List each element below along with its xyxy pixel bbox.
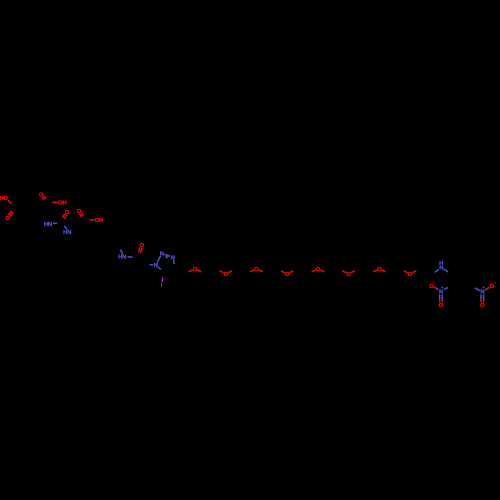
bond NH-C1(ring) half <box>444 269 448 272</box>
nitro2 N+ label <box>480 289 484 295</box>
svg-text:O: O <box>480 303 485 309</box>
nitro1 plus sign <box>441 286 443 288</box>
svg-text:N: N <box>439 289 443 295</box>
nitro1 O(-) label <box>429 284 434 290</box>
svg-text:O: O <box>3 196 8 202</box>
triazole N2 label <box>160 252 164 258</box>
bond HN-C(urea) half <box>53 222 57 225</box>
svg-text:O: O <box>429 284 434 290</box>
nitro1 N=O double bond <box>440 294 443 302</box>
nitro2 N=O double bond <box>481 294 484 302</box>
svg-text:O: O <box>377 267 382 273</box>
PEG ether O2 with half-bonds <box>219 271 232 278</box>
amide O label <box>140 243 145 249</box>
nitro2 minus sign <box>495 282 497 284</box>
bond ring-N+ (nitro2) half <box>475 288 480 291</box>
nitro2 plus sign <box>483 286 485 288</box>
triazole N3 label <box>171 255 175 261</box>
svg-text:O: O <box>65 210 70 216</box>
svg-text:N: N <box>439 265 443 271</box>
nitro2 O label (double bonded) <box>480 303 485 309</box>
bond C5-I half <box>161 277 164 282</box>
bond N1-C5 half <box>158 267 161 270</box>
bond C(urea)-NH half <box>64 226 67 229</box>
alpha carboxyl C=O double bond half <box>42 196 46 200</box>
triazole N1 label <box>154 263 158 269</box>
nitro2 N-O(-) bond <box>485 287 490 290</box>
nitro1 N+ label <box>439 289 443 295</box>
triazole N2=N3 double bond <box>165 254 171 257</box>
svg-text:N: N <box>67 230 71 236</box>
DNP N-H label <box>439 261 443 271</box>
PEG ether O5 with half-bonds <box>312 267 325 273</box>
glutamate carbonyl double bond C=O half <box>8 211 13 216</box>
lysine carbonyl O label <box>77 209 82 215</box>
svg-text:O: O <box>193 267 198 273</box>
urea right NH label <box>63 230 71 236</box>
svg-text:O: O <box>489 284 494 290</box>
nitro1 O label (double bonded) <box>439 303 444 309</box>
alpha carboxyl C-OH bond half <box>52 201 57 203</box>
nitro1 minus sign <box>433 281 435 283</box>
bond ring-N+ (nitro1) half <box>444 288 448 290</box>
svg-text:N: N <box>122 254 126 260</box>
alpha carboxyl OH label <box>58 200 67 206</box>
glutamate alpha carbonyl O label <box>39 192 44 198</box>
lysine C-OH bond half <box>89 219 94 221</box>
PEG ether O7 with half-bonds <box>373 267 386 273</box>
svg-text:N: N <box>160 252 164 258</box>
PEG ether O8 with half-bonds <box>404 271 417 278</box>
bond CH2-N1 half <box>150 264 154 266</box>
svg-text:N: N <box>48 222 52 228</box>
glutamate carbonyl O label <box>6 216 11 222</box>
svg-text:O: O <box>408 272 413 278</box>
glutamate carboxyl O-H label HO <box>0 196 8 202</box>
svg-text:O: O <box>254 267 259 273</box>
bond HO-C half <box>8 200 12 204</box>
lysine C=O double bond half <box>79 213 83 218</box>
svg-text:O: O <box>346 272 351 278</box>
PEG ether O1 with half-bonds <box>189 267 202 273</box>
lysine OH label <box>94 218 103 224</box>
triazole N1-N2 bond <box>157 256 160 262</box>
svg-text:O: O <box>140 243 145 249</box>
iodine label I <box>161 283 163 289</box>
nitro1 N-O(-) bond <box>434 287 439 290</box>
bond CH2-NH(DNP) half <box>435 269 439 272</box>
svg-text:N: N <box>154 263 158 269</box>
bond CH2-NH(amide) half <box>120 250 123 254</box>
bond NH-C(amide) half <box>127 256 132 258</box>
PEG ether O3 with half-bonds <box>250 267 263 273</box>
svg-text:O: O <box>223 272 228 278</box>
PEG ether O6 with half-bonds <box>342 271 355 278</box>
svg-text:O: O <box>285 272 290 278</box>
svg-text:H: H <box>63 200 67 206</box>
amide C=O double bond half <box>138 247 142 253</box>
bond N3-C4 half <box>172 260 175 264</box>
amide NH label <box>118 254 126 260</box>
urea C=O double bond half <box>63 214 67 219</box>
svg-text:O: O <box>316 267 321 273</box>
svg-text:O: O <box>6 216 11 222</box>
svg-text:O: O <box>439 303 444 309</box>
urea O label <box>65 210 70 216</box>
urea left NH label <box>44 222 52 228</box>
nitro2 O(-) label <box>489 284 494 290</box>
PEG ether O4 with half-bonds <box>281 271 294 278</box>
svg-text:H: H <box>99 218 103 224</box>
